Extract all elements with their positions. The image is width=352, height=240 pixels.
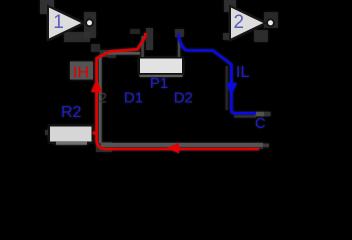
svg-text:IH: IH	[73, 65, 89, 82]
svg-text:1: 1	[53, 12, 64, 33]
wire: gray rail stub to capacitor top	[256, 112, 265, 117]
svg-text:D1: D1	[124, 90, 143, 107]
resistor R2	[49, 104, 93, 143]
svg-text:IL: IL	[236, 64, 249, 81]
svg-text:C: C	[255, 116, 265, 132]
potentiometer P1	[139, 34, 183, 93]
wire: gray vertical (inner wire of red loop)	[99, 55, 102, 143]
halo blocks (jpeg artifacts)	[40, 0, 278, 152]
svg-text:R2: R2	[61, 104, 82, 121]
wire: gray top segment (inner wire of red loop)	[104, 52, 140, 55]
wire: dark vertical left of blue	[225, 66, 227, 110]
wire: blue current path IL	[179, 34, 257, 114]
inverter U2	[230, 6, 274, 40]
wire: red current path IH	[93, 33, 260, 149]
wire: gray top-right rail to capacitor	[234, 115, 256, 117]
wire: gray bottom rail	[101, 143, 263, 147]
arrow bottom (left)	[167, 143, 180, 153]
inverter U1	[48, 6, 93, 40]
svg-text:2: 2	[99, 90, 107, 106]
svg-text:P1: P1	[150, 75, 168, 92]
svg-text:2: 2	[234, 12, 245, 33]
arrow IH (up)	[91, 80, 102, 93]
arrow IL (down)	[226, 83, 237, 95]
wire: gray bottom rail fade tail	[263, 144, 269, 148]
svg-text:D2: D2	[174, 90, 193, 107]
